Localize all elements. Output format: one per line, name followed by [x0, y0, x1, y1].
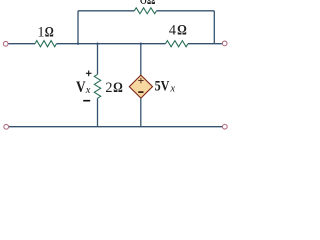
wire: middle node between 1-ohm and 4-ohm	[57, 43, 166, 45]
svg-text:V: V	[76, 79, 86, 96]
svg-text:5V: 5V	[155, 78, 170, 94]
resistor R1 1-ohm (horizontal)	[35, 41, 57, 47]
minus sign of Vx	[83, 100, 90, 102]
wire: feedback loop left vertical	[77, 11, 79, 44]
svg-text:Ω: Ω	[113, 80, 123, 96]
wire: bottom rail	[9, 126, 222, 128]
resistor R2 2-ohm (vertical)	[94, 74, 100, 98]
svg-text:Ω: Ω	[177, 23, 187, 39]
wire: feedback loop right vertical	[213, 11, 215, 44]
svg-text:1: 1	[37, 25, 44, 41]
terminal: top-right open circle	[222, 41, 227, 46]
node: junction dot source branch top	[140, 43, 142, 45]
svg-text:6: 6	[140, 0, 147, 8]
node: junction dot 2-ohm branch top	[96, 43, 98, 45]
wire: main middle horizontal node (left terminal to 1-ohm)	[8, 43, 35, 45]
svg-text:x: x	[169, 84, 175, 95]
terminal: top-left open circle	[3, 41, 8, 46]
svg-text:2: 2	[105, 80, 112, 96]
node: junction dot left of loop	[77, 43, 79, 45]
wire: right segment to right-top terminal	[188, 43, 222, 45]
resistor R4 4-ohm (horizontal)	[166, 41, 189, 47]
wire: feedback loop top horizontal right part	[157, 10, 215, 12]
wire: feedback loop top horizontal left part	[78, 10, 134, 12]
wire: dependent source branch lower vertical	[140, 98, 142, 127]
plus sign inside source	[138, 78, 143, 83]
svg-text:x: x	[85, 85, 91, 96]
wire: 2-ohm branch lower vertical	[97, 98, 99, 126]
svg-text:4: 4	[169, 23, 176, 39]
plus sign of Vx	[86, 71, 92, 77]
dependent source diamond 5Vx	[129, 75, 152, 98]
wire: 2-ohm branch upper vertical	[97, 44, 99, 75]
svg-text:Ω: Ω	[45, 25, 54, 41]
resistor R6 6-ohm (top, label cut off)	[134, 8, 156, 14]
terminal: bottom-right open circle	[222, 124, 227, 129]
minus bar inside source	[138, 91, 143, 93]
wire: dependent source branch upper vertical	[140, 44, 142, 75]
terminal: bottom-left open circle	[4, 124, 9, 129]
svg-text:Ω: Ω	[147, 0, 156, 8]
